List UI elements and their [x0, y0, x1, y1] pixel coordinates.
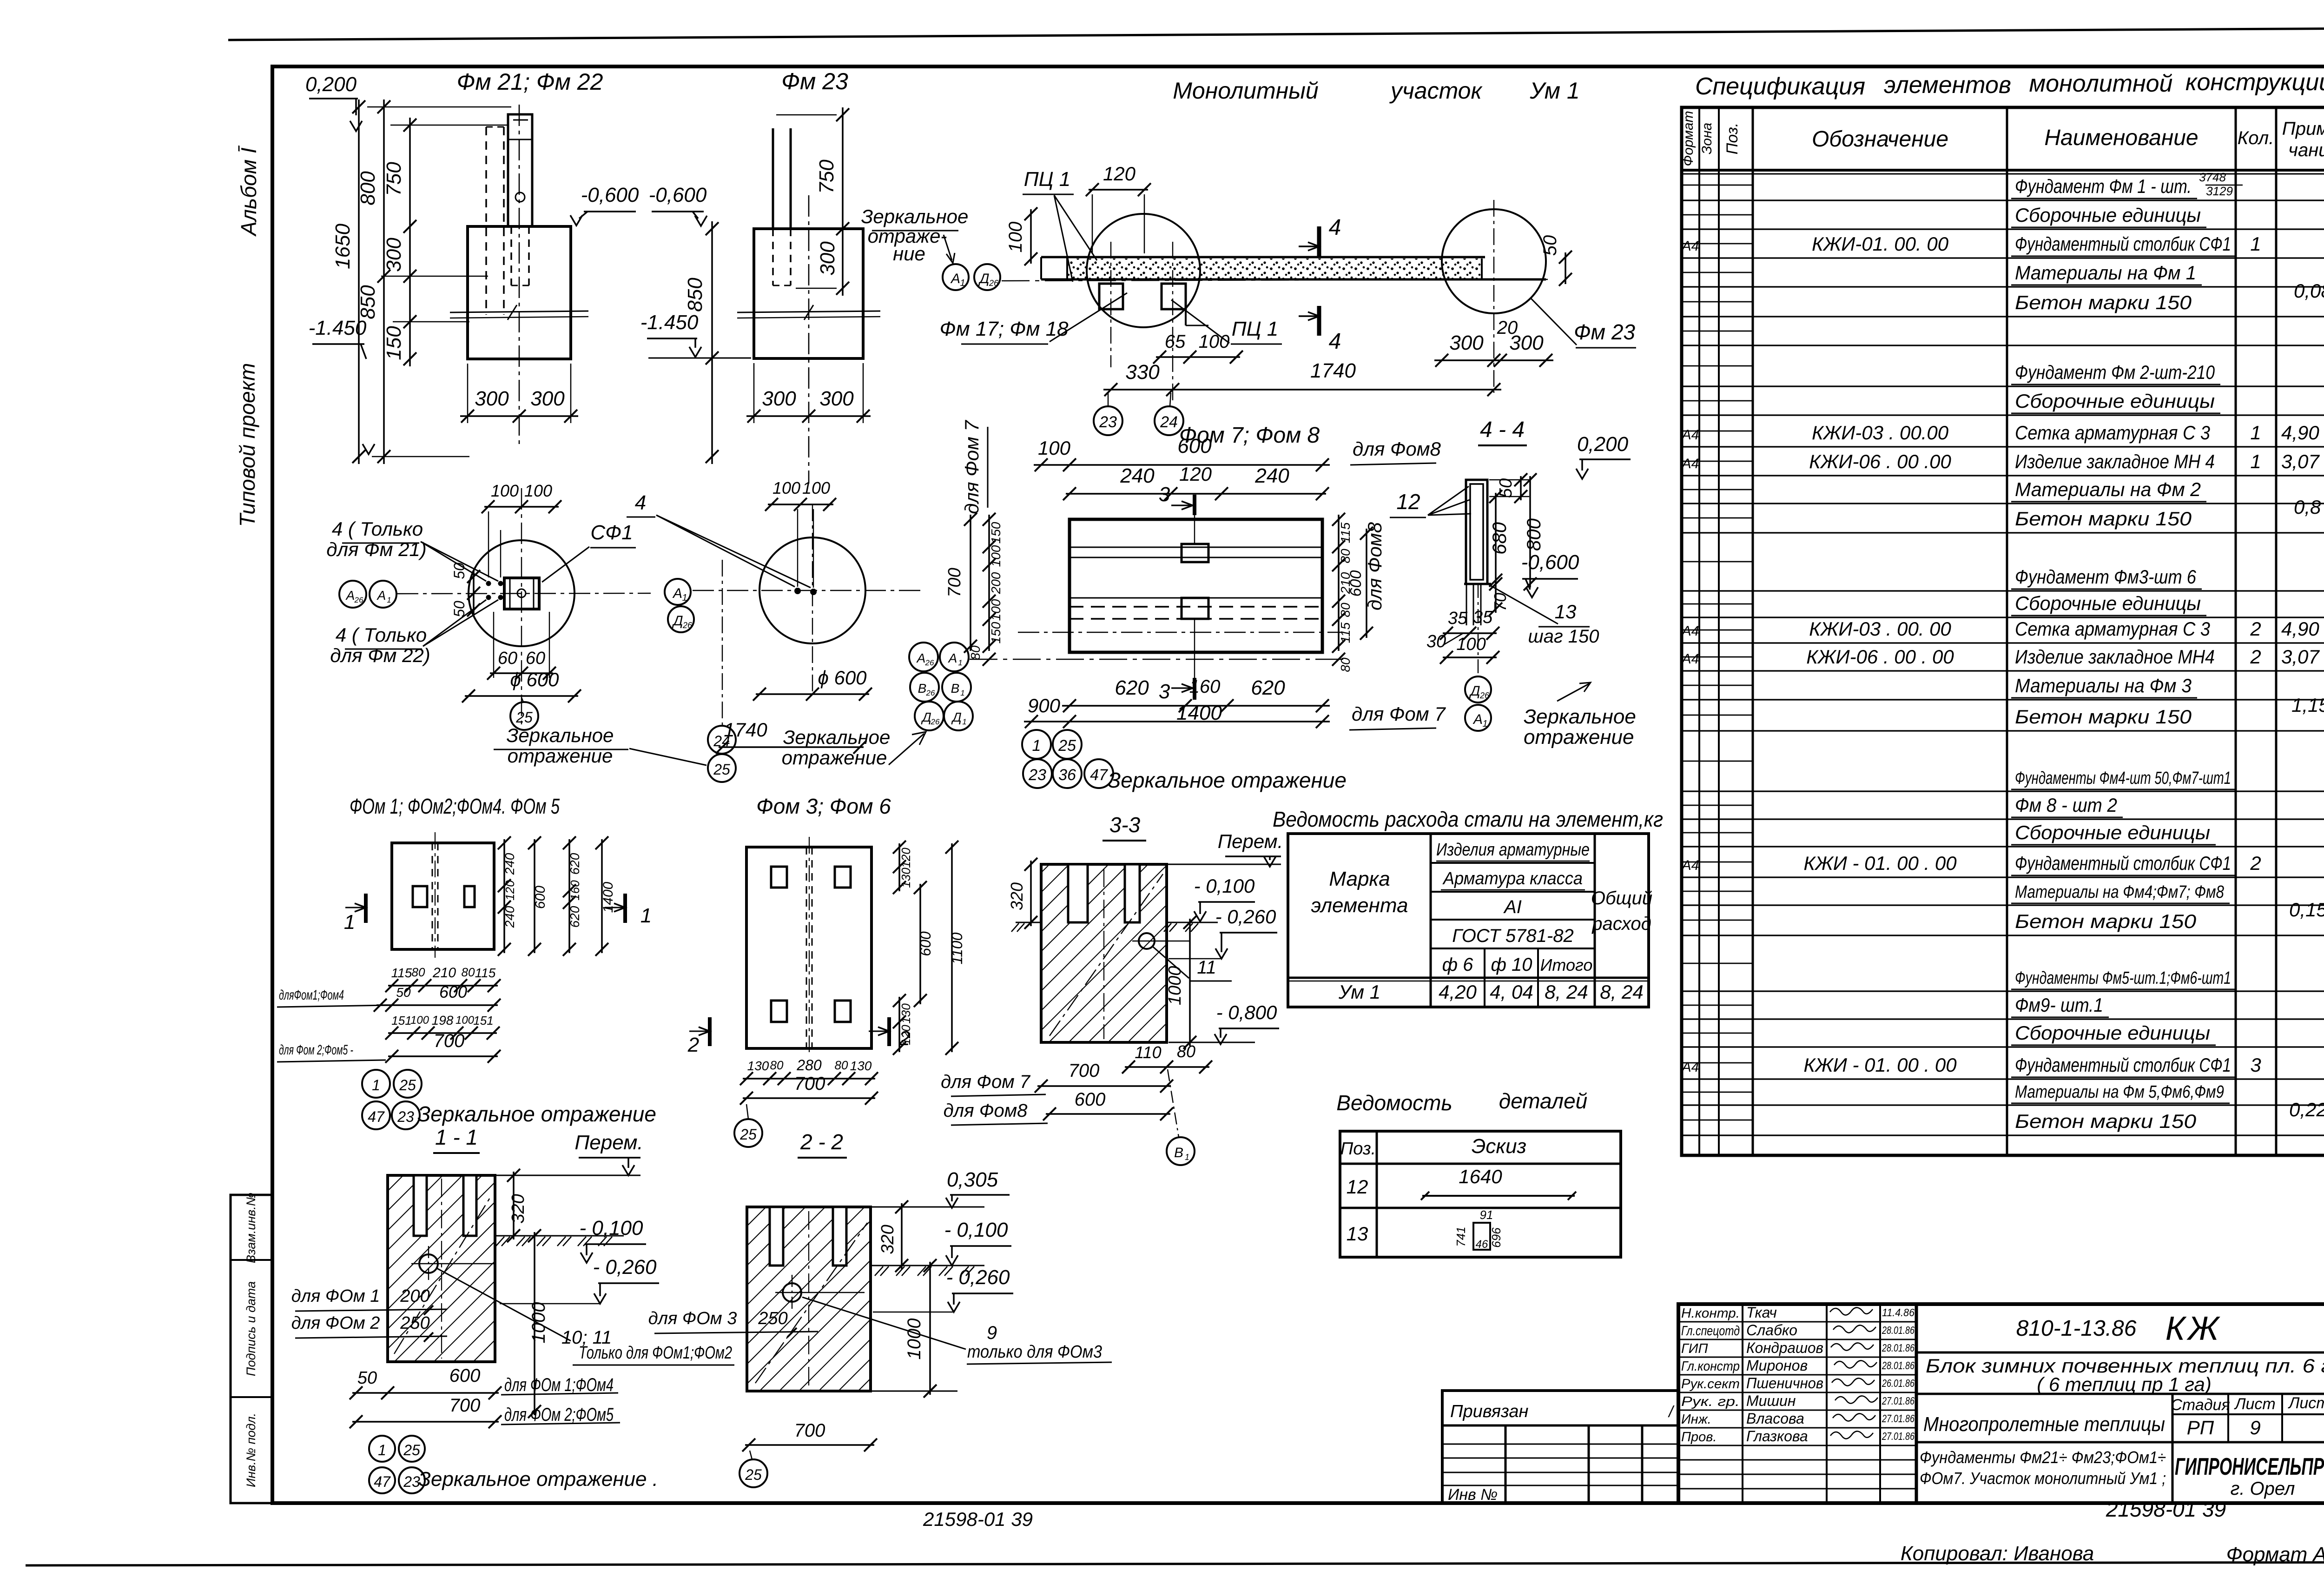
spec rows Fm4 block: [1681, 769, 2324, 932]
axis circle A1 strip: [943, 264, 969, 290]
svg-text:4: 4: [1329, 215, 1341, 240]
svg-text:3: 3: [2250, 1054, 2261, 1076]
view title Fom7 Fom8: [1179, 423, 1320, 448]
right dim chain 620/160/620 H: [563, 836, 582, 956]
svg-text:65: 65: [1165, 331, 1186, 352]
svg-text:1000: 1000: [1165, 966, 1185, 1006]
label 12 with leaders: [1390, 486, 1471, 517]
svg-text:80: 80: [770, 1058, 784, 1072]
svg-text:26: 26: [989, 278, 999, 288]
right dim 600 I: [914, 881, 934, 1007]
circles 1 25 47 23 H: [362, 1070, 422, 1129]
plan circle Fm21/22: [469, 540, 574, 646]
label dlya Fom2 Fom5 H: [277, 1042, 386, 1062]
svg-text:Фундаментный столбик СФ1: Фундаментный столбик СФ1: [2015, 852, 2231, 874]
slots 2-2: [770, 1207, 846, 1266]
svg-text:600: 600: [1075, 1089, 1106, 1110]
svg-text:Приме-: Приме-: [2282, 119, 2324, 139]
svg-text:Копировал: Иванова: Копировал: Иванова: [1901, 1542, 2094, 1565]
svg-text:Зеркальное отражение: Зеркальное отражение: [1108, 768, 1347, 792]
svg-text:700: 700: [434, 1031, 465, 1051]
svg-text:Фм 21; Фм 22: Фм 21; Фм 22: [457, 69, 603, 95]
svg-text:0,200: 0,200: [305, 73, 357, 96]
svg-text:Формат А2: Формат А2: [2226, 1543, 2324, 1566]
svg-text:отражение: отражение: [1524, 726, 1634, 749]
steel table texts: [1311, 840, 1653, 1003]
svg-text:160: 160: [568, 880, 582, 901]
axis circle 25 plan D: [510, 697, 538, 730]
svg-text:1: 1: [962, 717, 966, 726]
svg-text:- 0,260: - 0,260: [946, 1266, 1010, 1289]
svg-text:0,15 м: 0,15 м: [2289, 899, 2324, 921]
view title Fm21 Fm22: [457, 69, 603, 95]
svg-text:4,20: 4,20: [1439, 981, 1477, 1003]
svg-text:700: 700: [1069, 1060, 1100, 1081]
svg-text:Бетон марки 150: Бетон марки 150: [2015, 292, 2192, 313]
svg-text:250: 250: [400, 1313, 429, 1333]
svg-text:30: 30: [1426, 632, 1446, 651]
svg-text:Подпись и дата: Подпись и дата: [244, 1281, 258, 1376]
right dim 1100 I: [945, 841, 965, 1055]
svg-text:130: 130: [747, 1059, 769, 1073]
section mark 4 lower: [1299, 306, 1341, 354]
svg-text:Привязан: Привязан: [1450, 1402, 1528, 1421]
slots 3-3: [1068, 864, 1140, 922]
left margin label Album I: [237, 145, 261, 237]
svg-text:91: 91: [1480, 1208, 1493, 1222]
spec rows Fm5 block: [1681, 968, 2324, 1132]
detail circle left on strip: [1087, 214, 1200, 327]
svg-text:Зеркальное: Зеркальное: [507, 724, 614, 746]
svg-text:Общий: Общий: [1591, 888, 1652, 908]
svg-text:Типовой проект: Типовой проект: [235, 363, 259, 527]
svg-text:600: 600: [439, 982, 467, 1001]
svg-text:23: 23: [1099, 413, 1117, 431]
svg-text:- 0,100: - 0,100: [580, 1217, 644, 1239]
svg-text:3: 3: [1159, 680, 1170, 703]
level -0,100 3-3: [1194, 875, 1255, 921]
svg-text:Многопролетные теплицы: Многопролетные теплицы: [1923, 1413, 2165, 1436]
mirror diagonal 1-1: [394, 1179, 492, 1359]
svg-text:Миронов: Миронов: [1746, 1357, 1808, 1374]
svg-text:Зеркальное: Зеркальное: [861, 205, 969, 227]
svg-text:60: 60: [526, 649, 545, 668]
svg-text:Фом 3; Фом 6: Фом 3; Фом 6: [756, 794, 891, 818]
svg-text:Перем.: Перем.: [574, 1131, 643, 1154]
svg-text:ФОм 1; ФОм2;ФОм4. ФОм 5: ФОм 1; ФОм2;ФОм4. ФОм 5: [350, 794, 560, 818]
svg-text:1100: 1100: [949, 932, 965, 964]
svg-text:- 0,260: - 0,260: [1215, 906, 1276, 928]
svg-text:Монолитный: Монолитный: [1173, 78, 1318, 104]
top ref line 2-2: [871, 1206, 984, 1208]
svg-text:600: 600: [533, 886, 548, 909]
svg-text:12: 12: [1396, 490, 1420, 514]
view title 3-3: [1103, 813, 1146, 841]
bottom dim 300 300 Fm23: [746, 363, 871, 423]
svg-text:расход: расход: [1591, 914, 1651, 934]
left dim chain 150/100/200/100/150: [983, 513, 1003, 653]
svg-text:151: 151: [473, 1014, 493, 1027]
svg-text:КЖИ - 01. 00 . 00: КЖИ - 01. 00 . 00: [1803, 1054, 1957, 1076]
axis circle 24 plan E: [708, 726, 736, 754]
right dim 600: [1347, 527, 1373, 640]
svg-text:2: 2: [2250, 852, 2261, 874]
bottom dim 300 300 Fm21/22: [460, 364, 578, 423]
plan inner lines lower: [1018, 598, 1343, 632]
svg-text:47: 47: [368, 1108, 385, 1125]
svg-text:26.01.86: 26.01.86: [1882, 1377, 1915, 1389]
label 4 tolko dlya Fm21: [326, 518, 498, 581]
svg-text:1 - 1: 1 - 1: [435, 1125, 478, 1149]
svg-text:4: 4: [635, 491, 646, 514]
svg-text:300: 300: [762, 387, 796, 410]
svg-text:0,305: 0,305: [947, 1168, 998, 1191]
svg-text:Инж.: Инж.: [1681, 1412, 1711, 1427]
left dim 700: [945, 513, 977, 653]
svg-text:Перем.: Перем.: [1218, 830, 1283, 852]
svg-text:300: 300: [1449, 331, 1484, 354]
svg-text:320: 320: [1007, 882, 1026, 910]
svg-text:Материалы на Фм4;Фм7; Фм8: Материалы на Фм4;Фм7; Фм8: [2015, 882, 2224, 902]
svg-text:100: 100: [989, 599, 1003, 621]
label dlya FOm1 200: [291, 1286, 447, 1315]
svg-text:Изделие закладное МН4: Изделие закладное МН4: [2015, 646, 2215, 668]
bottom dim 700 H: [385, 1031, 501, 1063]
svg-text:Гл.констр: Гл.констр: [1681, 1359, 1740, 1374]
svg-text:Сборочные единицы: Сборочные единицы: [2015, 390, 2215, 412]
axis circle A1 4-4: [1465, 705, 1491, 731]
dim 330 1740 under strip: [1103, 359, 1501, 396]
svg-text:Листов: Листов: [2288, 1394, 2324, 1412]
svg-text:2: 2: [2250, 646, 2261, 668]
svg-text:Д: Д: [1469, 683, 1480, 699]
svg-text:1: 1: [960, 278, 965, 288]
svg-text:23: 23: [403, 1473, 420, 1490]
svg-text:120: 120: [1103, 163, 1136, 185]
svg-text:26: 26: [354, 596, 363, 604]
svg-text:КЖИ-06 . 00 .00: КЖИ-06 . 00 .00: [1809, 451, 1951, 472]
svg-text:26: 26: [926, 689, 935, 697]
mirror diagonal 3-3: [1050, 868, 1163, 1039]
svg-text:Сборочные единицы: Сборочные единицы: [2015, 822, 2210, 843]
svg-text:Только для ФОм1;ФОм2: Только для ФОм1;ФОм2: [579, 1343, 732, 1363]
dim f600 plan D: [462, 669, 581, 703]
right dim 1400 H: [595, 836, 616, 956]
title block object name: [1916, 1355, 2324, 1395]
svg-text:А4: А4: [1681, 651, 1699, 667]
svg-text:1: 1: [387, 596, 391, 604]
svg-text:26: 26: [925, 658, 934, 667]
svg-text:3: 3: [1159, 483, 1170, 506]
axis circle A26 plan D: [339, 581, 366, 608]
svg-text:210: 210: [432, 965, 456, 981]
svg-text:Марка: Марка: [1329, 868, 1390, 890]
svg-text:240: 240: [502, 853, 517, 875]
bottom dim 700 dlya Fom7: [941, 1060, 1173, 1096]
strip right end dims 50: [1540, 235, 1572, 286]
svg-text:3,07 кг: 3,07 кг: [2281, 646, 2324, 668]
label 13 shag 150: [1489, 585, 1599, 647]
level mark -0,600 for Fm21: [570, 184, 639, 225]
specification table header: [1681, 111, 2324, 166]
svg-text:элемента: элемента: [1311, 894, 1408, 917]
break line in block Fm21/22: [450, 305, 588, 320]
svg-text:120: 120: [1179, 463, 1212, 485]
svg-text:-0,600: -0,600: [1521, 551, 1579, 574]
svg-text:дляФом1;Фом4: дляФом1;Фом4: [279, 988, 344, 1003]
svg-text:Фм 8 - шт 2: Фм 8 - шт 2: [2015, 794, 2117, 816]
dim chain 750/300/150: [383, 118, 416, 366]
svg-text:8, 24: 8, 24: [1545, 981, 1588, 1003]
part 13 sketch: [1454, 1208, 1503, 1251]
svg-text:0,08 м: 0,08 м: [2294, 280, 2324, 302]
svg-text:198: 198: [432, 1013, 454, 1027]
svg-text:36: 36: [1058, 766, 1076, 784]
title block sheet name: [1920, 1448, 2166, 1488]
svg-text:КЖ: КЖ: [2166, 1310, 2221, 1347]
dim 320 2-2: [878, 1200, 908, 1272]
svg-text:для Фом8: для Фом8: [944, 1100, 1028, 1121]
bottom dims 50 600 1-1: [350, 1365, 618, 1399]
dim f600 plan E: [753, 667, 872, 701]
svg-text:Инв.№ подл.: Инв.№ подл.: [244, 1413, 258, 1487]
svg-text:Фундамент Фм3-шт 6: Фундамент Фм3-шт 6: [2015, 566, 2197, 588]
left dim 80: [968, 645, 996, 666]
svg-text:100: 100: [1199, 331, 1230, 352]
axis centerline Fm23: [808, 195, 810, 484]
svg-text:700: 700: [794, 1074, 825, 1094]
svg-text:240: 240: [1120, 464, 1155, 487]
dim 120 top: [1086, 163, 1151, 253]
dim 320 1-1: [507, 1169, 528, 1242]
svg-text:130: 130: [899, 868, 913, 888]
level mark -1.450 Fm23: [640, 311, 751, 358]
dims 50 50 plan D: [451, 563, 480, 617]
svg-text:50: 50: [1496, 478, 1516, 498]
plan rect Fom7/8: [1070, 519, 1322, 652]
svg-text:Арматура класса: Арматура класса: [1442, 869, 1583, 888]
svg-text:1: 1: [344, 911, 355, 934]
svg-text:3-3: 3-3: [1109, 813, 1141, 837]
hole circle 3-3: [1132, 933, 1190, 949]
title block signature texts: [1681, 1304, 1915, 1445]
sheet top edge line: [228, 28, 2324, 40]
level -0,100 2-2: [944, 1219, 1011, 1266]
svg-text:1650: 1650: [331, 224, 354, 269]
svg-text:Фм9- шт.1: Фм9- шт.1: [2015, 994, 2103, 1016]
svg-text:Фундамент Фм 1 - шт.: Фундамент Фм 1 - шт.: [2015, 175, 2192, 197]
svg-text:Фундаменты Фм21÷ Фм23;ФОм1÷: Фундаменты Фм21÷ Фм23;ФОм1÷: [1920, 1448, 2166, 1467]
svg-text:Изделия арматурные: Изделия арматурные: [1436, 840, 1590, 860]
svg-text:80: 80: [1338, 603, 1353, 617]
svg-text:115: 115: [1338, 622, 1353, 643]
binding table left of title block: [1442, 1391, 1678, 1504]
dims 100 100 plan E: [765, 478, 836, 588]
svg-text:20: 20: [1497, 318, 1518, 338]
axis dash 4-4: [1478, 584, 1479, 675]
svg-text:Сборочные единицы: Сборочные единицы: [2015, 1022, 2210, 1044]
svg-text:130: 130: [850, 1059, 872, 1073]
svg-text:- 0,260: - 0,260: [593, 1256, 657, 1279]
svg-text:3129: 3129: [2206, 184, 2233, 198]
break line in block Fm23: [737, 305, 880, 320]
axis circle A1 plan D: [370, 581, 396, 608]
svg-text:696: 696: [1489, 1227, 1503, 1248]
svg-text:750: 750: [815, 159, 838, 194]
svg-text:для Фом 2;Фом5 -: для Фом 2;Фом5 -: [279, 1042, 353, 1058]
section mark 1 right: [605, 894, 652, 927]
axis dashed right circle: [1493, 200, 1494, 393]
svg-text:КЖИ-01. 00. 00: КЖИ-01. 00. 00: [1812, 233, 1949, 255]
svg-text:250: 250: [758, 1309, 787, 1328]
svg-text:А4: А4: [1681, 239, 1699, 254]
svg-text:60: 60: [498, 649, 517, 668]
svg-text:для Фом8: для Фом8: [1353, 438, 1441, 460]
label dlya FOm2 250: [291, 1313, 447, 1342]
svg-text:Материалы на Фм 2: Материалы на Фм 2: [2015, 478, 2201, 500]
svg-text:620: 620: [568, 853, 582, 875]
svg-text:810-1-13.86: 810-1-13.86: [2016, 1316, 2137, 1341]
svg-text:г. Орел: г. Орел: [2231, 1478, 2295, 1499]
mirror note H: [417, 1102, 656, 1126]
svg-text:1: 1: [1482, 719, 1487, 729]
svg-text:700: 700: [794, 1420, 825, 1441]
svg-text:100: 100: [410, 1014, 429, 1027]
svg-text:для Фом 7: для Фом 7: [941, 1072, 1031, 1092]
svg-text:12: 12: [1347, 1176, 1368, 1198]
plan inner details FOm1245: [413, 832, 475, 958]
svg-text:Ведомость расхода стали: Ведомость расхода стали на элемент,кг: [1273, 807, 1663, 831]
svg-text:Лист: Лист: [2234, 1395, 2276, 1413]
right dims 130 120 bottom I: [893, 994, 913, 1055]
svg-text:0,200: 0,200: [1577, 433, 1629, 456]
svg-text:ϕ 600: ϕ 600: [510, 669, 559, 690]
svg-text:3,07 кг: 3,07 кг: [2281, 451, 2324, 472]
level -0,600 4-4: [1521, 551, 1579, 597]
svg-text:А4: А4: [1681, 1060, 1699, 1075]
svg-text:600: 600: [917, 931, 934, 956]
svg-text:Д: Д: [978, 271, 989, 286]
svg-text:-0,600: -0,600: [581, 184, 639, 206]
svg-text:Слабко: Слабко: [1746, 1322, 1797, 1339]
svg-text:50: 50: [451, 601, 468, 617]
svg-text:Альбом Ī: Альбом Ī: [237, 145, 261, 237]
svg-text:1: 1: [2250, 233, 2261, 255]
svg-text:Материалы на Фм 5,Фм6,Фм9: Материалы на Фм 5,Фм6,Фм9: [2015, 1082, 2224, 1102]
svg-text:ф 10: ф 10: [1491, 954, 1532, 975]
svg-text:0,22 м: 0,22 м: [2289, 1099, 2324, 1120]
svg-text:50: 50: [396, 985, 411, 1000]
svg-text:80: 80: [1338, 549, 1353, 563]
svg-text:Эскиз: Эскиз: [1472, 1135, 1526, 1158]
svg-text:0,8 м: 0,8 м: [2294, 496, 2324, 518]
label dlya FOm3 250: [648, 1309, 818, 1337]
svg-text:Материалы на Фм 1: Материалы на Фм 1: [2015, 262, 2196, 284]
svg-text:8, 24: 8, 24: [1600, 981, 1643, 1003]
svg-text:Взам.инв.№: Взам.инв.№: [244, 1193, 258, 1263]
hole circle 1-1: [411, 1246, 495, 1283]
level mark -0,600 for Fm23: [649, 184, 707, 226]
dim 50 top 4-4: [1489, 473, 1529, 503]
svg-text:47: 47: [374, 1473, 391, 1490]
svg-text:115: 115: [391, 966, 412, 980]
svg-text:Фундаменты Фм4-шт 50,Фм7-шт1: Фундаменты Фм4-шт 50,Фм7-шт1: [2015, 769, 2231, 788]
svg-text:конструкции: конструкции: [2185, 69, 2324, 96]
bottom dim 600 dlya Fom8: [944, 1089, 1173, 1125]
level -0,260 2-2: [873, 1266, 1013, 1312]
svg-text:1: 1: [2250, 451, 2261, 472]
plan circle Fm23: [759, 537, 865, 643]
view title 2-2: [798, 1130, 847, 1158]
svg-text:26: 26: [1479, 691, 1490, 700]
svg-text:25: 25: [739, 1126, 757, 1143]
svg-text:80: 80: [462, 965, 475, 979]
plan axis line horizontal: [970, 659, 1346, 660]
section mark 3 upper: [1159, 483, 1195, 678]
svg-text:Поз.: Поз.: [1723, 123, 1741, 154]
svg-text:Д: Д: [672, 613, 683, 629]
svg-text:Материалы на Фм 3: Материалы на Фм 3: [2015, 675, 2192, 696]
section mark 4 upper: [1299, 215, 1341, 257]
level 0,305 2-2: [946, 1168, 1010, 1208]
dim chain 800/850: [357, 99, 390, 464]
top ref line 3-3: [1167, 864, 1281, 865]
svg-text:участок: участок: [1389, 78, 1483, 104]
svg-text:25: 25: [515, 709, 533, 726]
svg-text:отражение: отражение: [508, 745, 613, 767]
svg-text:4,90 кг: 4,90 кг: [2281, 422, 2324, 444]
right rotated label dlya Fom8: [1364, 522, 1386, 610]
svg-text:Фундаментный столбик СФ1: Фундаментный столбик СФ1: [2015, 233, 2231, 255]
circles row 23 36 47: [1023, 759, 1113, 788]
svg-text:1: 1: [372, 1077, 380, 1094]
svg-text:В: В: [1174, 1145, 1183, 1160]
svg-text:1: 1: [958, 658, 962, 667]
svg-text:100: 100: [491, 481, 519, 500]
svg-text:Сборочные единицы: Сборочные единицы: [2015, 592, 2201, 614]
label PTs1 lower: [1171, 300, 1282, 344]
svg-text:80: 80: [968, 645, 983, 660]
svg-text:Изделие закладное МН 4: Изделие закладное МН 4: [2015, 451, 2215, 472]
svg-text:- 0,100: - 0,100: [1194, 875, 1255, 897]
svg-text:25: 25: [1058, 737, 1076, 755]
label 10 11 only FOm1 FOm2: [437, 1268, 734, 1365]
svg-text:ϕ 600: ϕ 600: [818, 667, 867, 689]
svg-text:25: 25: [745, 1466, 762, 1483]
svg-text:Пшеничнов: Пшеничнов: [1746, 1375, 1823, 1392]
bottom dims 115/80/210/80/115 H: [385, 965, 501, 992]
level Perem 3-3: [1218, 830, 1283, 867]
svg-text:28.01.86: 28.01.86: [1882, 1324, 1915, 1336]
title block organization: [2175, 1453, 2324, 1499]
post square SF1 plan: [504, 578, 539, 609]
svg-text:4 - 4: 4 - 4: [1480, 418, 1525, 442]
mirror note plan F: [1108, 768, 1347, 792]
svg-text:1: 1: [1185, 1153, 1189, 1162]
svg-text:Сетка арматурная С 3: Сетка арматурная С 3: [2015, 422, 2210, 444]
svg-text:( 6 теплиц пр 1 га): ( 6 теплиц пр 1 га): [2037, 1373, 2212, 1395]
svg-text:Н.контр.: Н.контр.: [1681, 1306, 1740, 1321]
hatched block 2-2: [747, 1207, 871, 1391]
svg-text:ФОм7. Участок монолитный Ум1 ;: ФОм7. Участок монолитный Ум1 ;: [1920, 1469, 2166, 1488]
axis circle A1 plan E: [665, 579, 691, 605]
view title 4-4: [1478, 418, 1527, 445]
svg-text:4, 04: 4, 04: [1490, 981, 1533, 1003]
svg-text:Бетон марки 150: Бетон марки 150: [2015, 910, 2197, 932]
dim 320 3-3: [1007, 858, 1037, 929]
svg-text:А: А: [948, 651, 957, 665]
svg-text:23: 23: [397, 1108, 414, 1125]
